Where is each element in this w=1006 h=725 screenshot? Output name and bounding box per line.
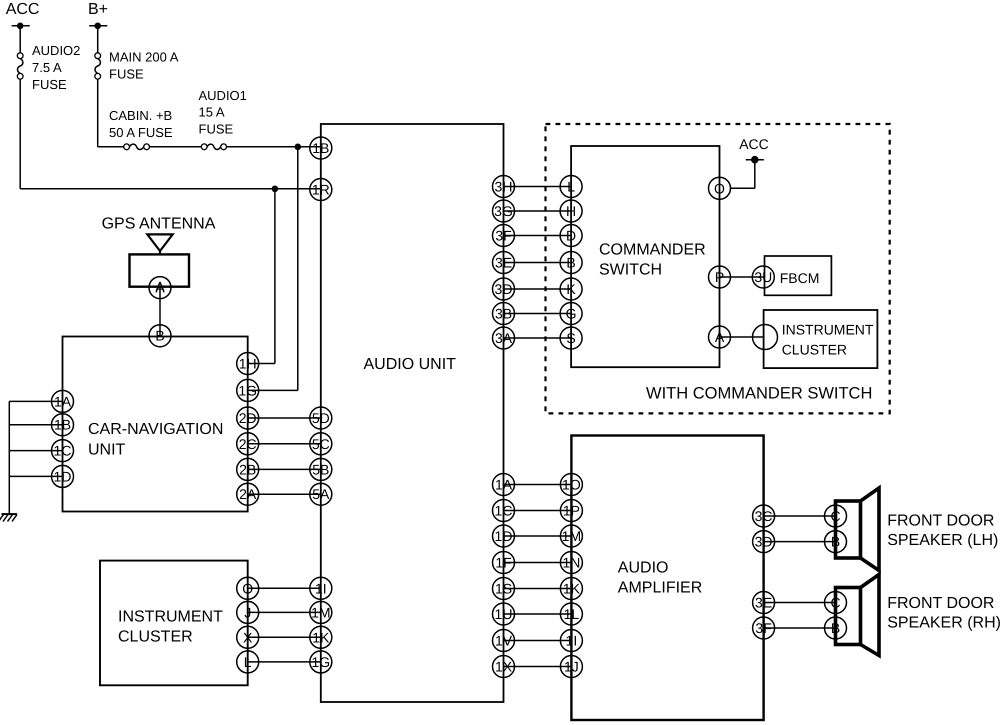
svg-text:3F: 3F (755, 620, 771, 636)
svg-text:L: L (244, 654, 252, 670)
svg-text:1C: 1C (495, 502, 513, 518)
svg-text:1P: 1P (563, 502, 580, 518)
svg-text:1D: 1D (54, 468, 72, 484)
svg-text:ACC: ACC (6, 1, 40, 18)
svg-text:B: B (831, 620, 840, 636)
svg-text:1V: 1V (495, 632, 513, 648)
svg-text:3U: 3U (754, 269, 772, 285)
svg-text:5B: 5B (312, 461, 329, 477)
svg-text:3G: 3G (494, 203, 513, 219)
svg-text:1I: 1I (566, 632, 578, 648)
svg-text:MAIN 200 A: MAIN 200 A (109, 50, 179, 65)
svg-text:C: C (830, 594, 840, 610)
svg-text:1B: 1B (312, 140, 329, 156)
svg-text:CABIN. +B: CABIN. +B (109, 108, 172, 123)
svg-text:1U: 1U (495, 606, 513, 622)
svg-text:3D: 3D (755, 534, 773, 550)
svg-text:7.5 A: 7.5 A (32, 60, 62, 75)
svg-text:1D: 1D (495, 528, 513, 544)
svg-text:ACC: ACC (739, 136, 769, 152)
svg-text:A: A (715, 329, 725, 345)
svg-text:AUDIO UNIT: AUDIO UNIT (364, 356, 457, 373)
svg-text:B+: B+ (88, 1, 108, 18)
svg-text:1S: 1S (495, 580, 512, 596)
svg-text:3A: 3A (495, 330, 513, 346)
svg-text:CAR-NAVIGATION: CAR-NAVIGATION (88, 421, 223, 438)
svg-text:2C: 2C (239, 436, 257, 452)
svg-text:1O: 1O (562, 476, 581, 492)
svg-text:SPEAKER (RH): SPEAKER (RH) (887, 615, 1001, 632)
svg-text:FUSE: FUSE (109, 66, 144, 81)
svg-text:SWITCH: SWITCH (599, 261, 662, 278)
svg-text:INSTRUMENT: INSTRUMENT (118, 608, 223, 625)
svg-text:2B: 2B (239, 461, 256, 477)
svg-text:2A: 2A (239, 486, 257, 502)
svg-text:C: C (830, 508, 840, 524)
svg-text:50 A FUSE: 50 A FUSE (109, 125, 173, 140)
svg-text:L: L (567, 178, 575, 194)
svg-text:1K: 1K (563, 580, 581, 596)
svg-text:15 A: 15 A (199, 105, 225, 120)
svg-text:S: S (566, 330, 575, 346)
svg-text:3B: 3B (495, 305, 512, 321)
svg-text:CLUSTER: CLUSTER (782, 341, 847, 357)
svg-text:INSTRUMENT: INSTRUMENT (782, 322, 874, 338)
svg-text:3C: 3C (755, 508, 773, 524)
svg-text:B: B (566, 254, 575, 270)
svg-text:1C: 1C (54, 443, 72, 459)
svg-text:1G: 1G (238, 382, 257, 398)
svg-text:1J: 1J (564, 658, 579, 674)
svg-text:3D: 3D (495, 281, 513, 297)
svg-text:5D: 5D (312, 410, 330, 426)
svg-text:1N: 1N (562, 554, 580, 570)
svg-text:J: J (244, 604, 251, 620)
svg-text:1X: 1X (495, 658, 513, 674)
svg-text:3F: 3F (495, 227, 511, 243)
svg-text:1A: 1A (495, 476, 513, 492)
svg-text:1R: 1R (312, 181, 330, 197)
svg-text:O: O (714, 180, 725, 196)
svg-text:1F: 1F (495, 554, 511, 570)
svg-text:3E: 3E (495, 254, 512, 270)
svg-text:GPS ANTENNA: GPS ANTENNA (102, 216, 216, 233)
svg-text:A: A (155, 280, 165, 296)
svg-text:CLUSTER: CLUSTER (118, 629, 193, 646)
svg-text:1L: 1L (564, 606, 580, 622)
svg-text:G: G (566, 305, 577, 321)
svg-text:K: K (566, 281, 576, 297)
svg-text:B: B (831, 534, 840, 550)
svg-text:FUSE: FUSE (199, 121, 234, 136)
svg-text:X: X (243, 629, 253, 645)
svg-text:H: H (566, 203, 576, 219)
svg-text:5C: 5C (312, 436, 330, 452)
svg-text:3H: 3H (495, 178, 513, 194)
svg-text:AUDIO: AUDIO (618, 560, 669, 577)
svg-text:1M: 1M (562, 528, 581, 544)
svg-text:WITH COMMANDER SWITCH: WITH COMMANDER SWITCH (646, 384, 872, 402)
svg-text:AMPLIFIER: AMPLIFIER (618, 579, 702, 596)
svg-text:2D: 2D (239, 410, 257, 426)
svg-text:5A: 5A (312, 486, 330, 502)
svg-text:COMMANDER: COMMANDER (599, 242, 706, 259)
svg-text:3E: 3E (755, 594, 772, 610)
svg-text:AUDIO1: AUDIO1 (199, 88, 247, 103)
svg-text:FUSE: FUSE (32, 77, 67, 92)
svg-text:O: O (242, 580, 253, 596)
svg-text:1B: 1B (54, 417, 71, 433)
svg-text:D: D (566, 227, 576, 243)
svg-text:AUDIO2: AUDIO2 (32, 43, 80, 58)
svg-text:FRONT DOOR: FRONT DOOR (887, 513, 994, 530)
svg-text:FRONT DOOR: FRONT DOOR (887, 595, 994, 612)
svg-text:1A: 1A (54, 393, 72, 409)
svg-text:UNIT: UNIT (88, 441, 126, 458)
svg-text:SPEAKER (LH): SPEAKER (LH) (887, 532, 998, 549)
svg-text:1H: 1H (239, 355, 257, 371)
svg-text:P: P (715, 269, 724, 285)
svg-text:FBCM: FBCM (780, 270, 820, 286)
